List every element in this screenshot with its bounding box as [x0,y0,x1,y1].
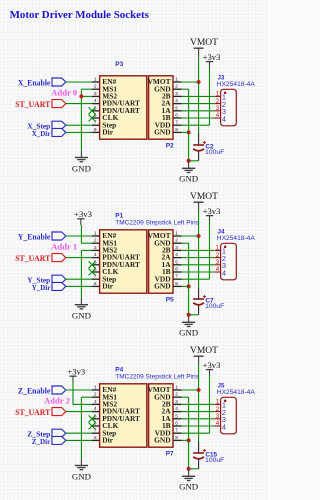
P7 pin 8 (GND) [173,439,182,441]
junction GND [187,467,191,471]
svg-text:VMOT: VMOT [190,192,218,202]
svg-text:VMOT: VMOT [190,38,218,48]
wire GND column down [80,397,82,459]
svg-text:GND: GND [72,163,91,173]
junction GND [187,159,191,163]
wire GND column down [188,397,190,469]
hierarchical label X_Dir [52,128,66,136]
no-connect X on P3 pin 6 [89,115,96,122]
wire pin2 GND [182,396,189,398]
wire 2B to J4 [182,249,215,251]
svg-text:GND: GND [154,282,170,291]
no-connect X on P4 pin 5 [89,415,96,422]
wire pin8 GND [182,439,189,441]
P3 pin 8 (Dir) [92,131,100,133]
P5 pin 7 (VDD) [173,278,182,280]
junction VMOT / pin1 [197,234,201,238]
ground pin right [188,315,190,323]
P4 pin 1 (EN#) [92,389,100,391]
no-connect X on P3 pin 5 [89,107,96,114]
svg-text:P2: P2 [166,142,174,149]
P4 pin 7 (Step) [92,432,100,434]
P4 pin 6 (CLK) [92,425,100,427]
svg-text:1: 1 [175,77,178,83]
P5 pin 6 (1B) [173,271,182,273]
svg-text:2: 2 [94,84,97,90]
no-connect X on P1 pin 5 [89,261,96,268]
P2 pin 5 (1A) [173,110,182,112]
wire 2A to J5 [182,411,215,413]
svg-text:4: 4 [216,112,220,119]
capacitor C7 100uF [198,288,200,300]
wire Y_Step to Step [66,278,92,280]
wire pin1 VMOT [182,389,199,391]
P1 pin 3 (MS2) [92,249,100,251]
svg-text:+3v3: +3v3 [203,52,221,62]
svg-text:GND: GND [179,327,198,337]
wire VMOT down to cap [198,57,200,134]
ground pin right [188,469,190,477]
wire MS1 to GND column [81,396,92,398]
svg-text:3: 3 [94,91,97,97]
svg-text:ST_UART: ST_UART [15,100,51,109]
svg-text:8: 8 [175,435,178,441]
svg-text:6: 6 [175,421,178,427]
P4 pin 3 (MS2) [92,403,100,405]
ground symbol left [75,304,88,306]
wire Y_Dir to Dir [66,285,92,287]
hierarchical label X_Step [52,121,66,129]
connector J3 body [221,89,237,126]
wire pin2 GND [182,242,189,244]
J3 pin 2 [214,103,220,105]
ground symbol left [75,465,88,467]
svg-text:1: 1 [94,385,97,391]
hierarchical label ST_UART [52,254,66,262]
hierarchical label Y_Step [52,275,66,283]
J3 pin 1 [214,95,220,97]
connector P4 body (left 8-pin socket) [100,384,147,447]
svg-text:6: 6 [175,267,178,273]
wire GND column down [188,89,190,161]
svg-text:Dir: Dir [102,436,113,445]
svg-text:Z_Dir: Z_Dir [32,437,51,446]
ground pin left [80,459,82,466]
svg-text:GND: GND [72,471,91,481]
svg-text:ST_UART: ST_UART [15,408,51,417]
svg-text:1: 1 [216,399,220,406]
svg-text:2: 2 [216,406,220,413]
ground pin left [80,298,82,305]
P2 pin 8 (GND) [173,131,182,133]
P7 pin 7 (VDD) [173,432,182,434]
svg-text:5: 5 [175,259,178,265]
wire 1A to J3 [182,110,215,112]
wire 2A to J3 [182,103,215,105]
J4 pin-1 indicator dot [224,246,227,249]
P2 pin 3 (2B) [173,95,182,97]
J5 pin 4 [214,425,220,427]
P1 pin 8 (Dir) [92,285,100,287]
svg-text:Addr 1: Addr 1 [51,242,77,251]
P4 pin 8 (Dir) [92,439,100,441]
ground pin right [188,161,190,169]
svg-text:3: 3 [216,413,220,420]
svg-text:TMC2209 Stepstick Left Pins: TMC2209 Stepstick Left Pins [115,220,199,227]
P7 pin 6 (1B) [173,425,182,427]
wire 2A to J4 [182,257,215,259]
P1 pin 6 (CLK) [92,271,100,273]
junction VMOT / pin1 [197,388,201,392]
capacitor C15 100uF [198,442,200,454]
wire Y_Enable to EN# [66,235,92,237]
wire pin1 VMOT [182,81,199,83]
hierarchical label X_Enable [52,78,66,86]
P3 pin 6 (CLK) [92,117,100,119]
svg-text:8: 8 [175,127,178,133]
wire MS2 to addr column [81,95,92,97]
wire 1A to J5 [182,418,215,420]
connector J4 body [221,243,237,279]
P3 pin 1 (EN#) [92,81,100,83]
J4 pin 2 [214,257,220,259]
J5 pin-1 indicator dot [224,400,227,403]
svg-text:HX25418-4A: HX25418-4A [217,389,255,396]
P1 pin 7 (Step) [92,278,100,280]
svg-text:3: 3 [94,245,97,251]
wire ST_UART to PDN/UART [66,103,92,105]
ground symbol left [75,157,88,159]
svg-text:ST_UART: ST_UART [15,254,51,263]
svg-text:3: 3 [216,105,220,112]
svg-text:1: 1 [216,245,220,252]
wire VMOT down to cap [198,211,200,288]
wire cap to GND column [189,314,199,316]
P1 pin 2 (MS1) [92,242,100,244]
P7 pin 2 (GND) [173,396,182,398]
svg-text:Dir: Dir [102,128,113,137]
svg-text:7: 7 [175,428,178,434]
svg-text:VMOT: VMOT [190,346,218,356]
svg-text:7: 7 [175,274,178,280]
svg-text:GND: GND [154,436,170,445]
svg-text:4: 4 [222,422,226,431]
svg-text:5: 5 [175,105,178,111]
svg-text:7: 7 [175,120,178,126]
svg-text:P3: P3 [115,61,123,68]
P7 pin 1 (VMOT) [173,389,182,391]
svg-text:P7: P7 [166,450,174,457]
svg-text:2: 2 [216,98,220,105]
svg-text:GND: GND [154,128,170,137]
wire pin1 VMOT [182,235,199,237]
P3 pin 5 (PDN/UART) [92,110,100,112]
J4 pin 3 [214,264,220,266]
J5 pin 2 [214,411,220,413]
wire ST_UART to PDN/UART [66,411,92,413]
svg-text:GND: GND [179,173,198,183]
connector P3 body (left 8-pin socket) [100,76,147,139]
svg-text:2: 2 [175,84,178,90]
wire Z_Dir to Dir [66,439,92,441]
svg-text:2: 2 [94,238,97,244]
P2 pin 7 (VDD) [173,124,182,126]
svg-text:4: 4 [216,420,220,427]
wire 1A to J4 [182,264,215,266]
wire GND column down [188,243,190,315]
svg-text:6: 6 [175,113,178,119]
wire cap to GND column [189,468,199,470]
svg-text:8: 8 [94,127,97,133]
svg-text:100uF: 100uF [205,303,224,310]
connector P5 body (right 8-pin socket) [149,230,173,293]
svg-text:4: 4 [94,252,97,258]
polarity + mark of C2 [203,142,206,144]
wire +3v3 down to VDD [209,375,211,433]
svg-text:8: 8 [94,435,97,441]
svg-text:X_Enable: X_Enable [18,78,51,87]
hierarchical label Y_Enable [52,232,66,240]
svg-text:+3v3: +3v3 [203,206,221,216]
wire cap to GND column [189,160,199,162]
junction pin8 GND [187,438,191,442]
polarity + mark of C7 [203,296,206,298]
svg-text:P5: P5 [166,296,174,303]
J3 pin 4 [214,117,220,119]
P4 pin 2 (MS1) [92,396,100,398]
wire +3v3 down to MS2 [72,382,74,404]
junction GND [187,313,191,317]
hierarchical label Z_Step [52,429,66,437]
J4 pin 4 [214,271,220,273]
svg-text:1: 1 [175,385,178,391]
svg-text:Z_Enable: Z_Enable [18,386,51,395]
junction VMOT / pin1 [197,80,201,84]
wire X_Dir to Dir [66,131,92,133]
J5 pin 3 [214,418,220,420]
wire +3v3 down to VDD [209,221,211,279]
P5 pin 4 (2A) [173,257,182,259]
P5 pin 2 (GND) [173,242,182,244]
svg-text:Dir: Dir [102,282,113,291]
svg-text:5: 5 [175,413,178,419]
P5 pin 3 (2B) [173,249,182,251]
svg-text:3: 3 [175,91,178,97]
svg-text:8: 8 [94,281,97,287]
svg-text:HX25418-4A: HX25418-4A [217,81,255,88]
connector P2 body (right 8-pin socket) [149,76,173,139]
hierarchical label Z_Enable [52,386,66,394]
svg-text:TMC2209 Stepstick Left Pins: TMC2209 Stepstick Left Pins [115,374,199,381]
svg-text:+3v3: +3v3 [74,209,92,219]
P2 pin 2 (GND) [173,88,182,90]
capacitor C2 100uF [198,134,200,146]
wire ST_UART to PDN/UART [66,257,92,259]
P3 pin 3 (MS2) [92,95,100,97]
wire pin8 GND [182,285,189,287]
P5 pin 8 (GND) [173,285,182,287]
svg-text:3: 3 [216,259,220,266]
connector P7 body (right 8-pin socket) [149,384,173,447]
J4 pin 1 [214,249,220,251]
hierarchical label ST_UART [52,100,66,108]
P2 pin 4 (2A) [173,103,182,105]
svg-text:1: 1 [94,231,97,237]
wire +3v3 down to VDD [209,67,211,125]
svg-text:+3v3: +3v3 [67,366,85,376]
wire X_Enable to EN# [66,81,92,83]
svg-text:1: 1 [175,231,178,237]
no-connect X on P4 pin 6 [89,423,96,430]
no-connect X on P1 pin 6 [89,269,96,276]
ground pin left [80,151,82,158]
svg-text:4: 4 [94,98,97,104]
wire X_Step to Step [66,124,92,126]
hierarchical label Y_Dir [52,282,66,290]
svg-text:2: 2 [175,238,178,244]
junction pin8 GND [187,130,191,134]
svg-text:3: 3 [175,245,178,251]
svg-text:3: 3 [175,399,178,405]
svg-text:GND: GND [72,311,91,321]
wire 1B to J3 [182,117,215,119]
P1 pin 5 (PDN/UART) [92,264,100,266]
svg-text:Addr 0: Addr 0 [51,88,77,97]
svg-text:4: 4 [175,252,178,258]
svg-text:4: 4 [175,406,178,412]
wire Z_Enable to EN# [66,389,92,391]
ground symbol right [182,167,195,169]
P3 pin 7 (Step) [92,124,100,126]
junction pin8 GND [187,284,191,288]
junction MS2 / addr column [79,94,83,98]
hierarchical label ST_UART [52,408,66,416]
connector P1 body (left 8-pin socket) [100,230,147,293]
wire addr column down to GND [80,89,82,151]
P3 pin 2 (MS1) [92,88,100,90]
svg-text:Addr 2: Addr 2 [44,396,70,405]
J5 pin 1 [214,403,220,405]
wire 1B to J4 [182,271,215,273]
ground symbol right [182,475,195,477]
svg-text:1: 1 [216,91,220,98]
svg-text:HX25418-4A: HX25418-4A [217,235,255,242]
wire 2B to J5 [182,403,215,405]
wire 1B to J5 [182,425,215,427]
wire MS2 to GND column [81,249,92,251]
wire 2B to J3 [182,95,215,97]
svg-text:100uF: 100uF [205,457,224,464]
wire Z_Step to Step [66,432,92,434]
P1 pin 4 (PDN/UART) [92,257,100,259]
P1 pin 1 (EN#) [92,235,100,237]
connector J5 body [221,397,237,434]
svg-text:3: 3 [94,399,97,405]
polarity + mark of C15 [203,450,206,452]
wire pin2 GND [182,88,189,90]
P5 pin 5 (1A) [173,264,182,266]
svg-text:100uF: 100uF [205,149,224,156]
svg-text:Y_Dir: Y_Dir [32,283,51,292]
hierarchical label Z_Dir [52,436,66,444]
wire MS1 to addr column [81,88,92,90]
ground symbol right [182,321,195,323]
svg-text:GND: GND [179,481,198,491]
svg-text:2: 2 [94,392,97,398]
P5 pin 1 (VMOT) [173,235,182,237]
svg-text:4: 4 [175,98,178,104]
svg-text:4: 4 [222,114,226,123]
P4 pin 5 (PDN/UART) [92,418,100,420]
svg-text:4: 4 [222,268,226,277]
svg-text:Motor Driver Module Sockets: Motor Driver Module Sockets [10,9,149,21]
svg-text:8: 8 [175,281,178,287]
J3 pin 3 [214,110,220,112]
svg-text:4: 4 [94,406,97,412]
svg-text:2: 2 [175,392,178,398]
svg-text:2: 2 [216,252,220,259]
P7 pin 3 (2B) [173,403,182,405]
svg-text:+3v3: +3v3 [203,360,221,370]
J3 pin-1 indicator dot [224,92,227,95]
svg-text:Y_Enable: Y_Enable [18,232,51,241]
P7 pin 4 (2A) [173,411,182,413]
svg-text:4: 4 [216,266,220,273]
P2 pin 1 (VMOT) [173,81,182,83]
svg-text:X_Dir: X_Dir [32,129,51,138]
P2 pin 6 (1B) [173,117,182,119]
svg-text:1: 1 [94,77,97,83]
P4 pin 4 (PDN/UART) [92,411,100,413]
wire +3v3 down to MS1 [80,225,82,243]
wire pin8 GND [182,131,189,133]
P7 pin 5 (1A) [173,418,182,420]
wire GND column down [80,250,82,298]
wire VMOT down to cap [198,365,200,442]
P3 pin 4 (PDN/UART) [92,103,100,105]
